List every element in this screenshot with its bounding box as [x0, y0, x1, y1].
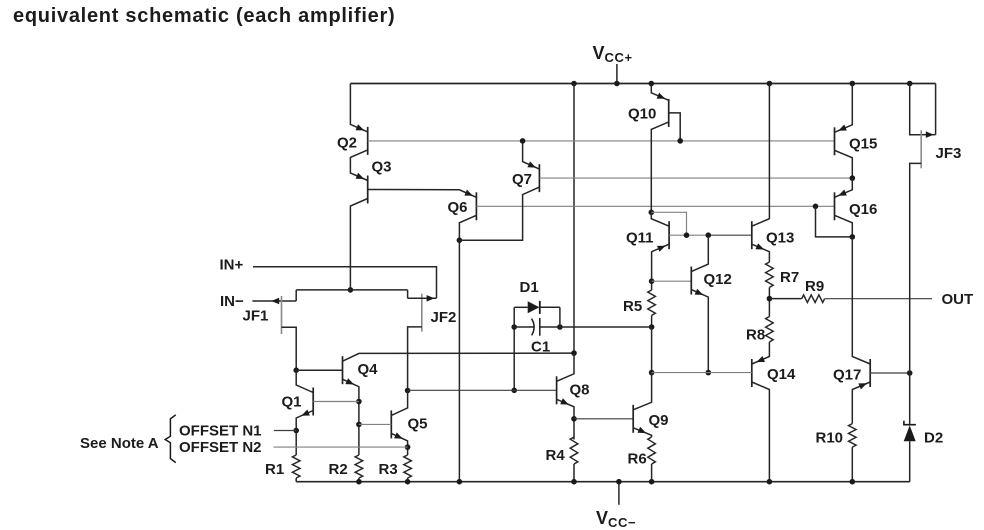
- node VCC+ rail junction (Q10 emitter): [649, 81, 655, 87]
- transistor Q7 emitter arrow: [527, 161, 536, 167]
- transistor Q13 emitter arrow: [756, 243, 765, 249]
- transistor Q2 emitter arrow: [356, 124, 365, 130]
- resistor R8: [766, 317, 774, 342]
- svg-text:Q14: Q14: [767, 366, 796, 383]
- transistor Q3 label: [372, 159, 392, 176]
- svg-text:IN+: IN+: [220, 257, 244, 274]
- node Q4 emitter / Q1 base junction: [356, 399, 362, 405]
- node VCC+ rail junction (JF3 drain): [907, 81, 913, 87]
- wire R5 bottom to C1 line: [651, 315, 653, 327]
- node Q10/Q11 collector junction: [649, 210, 655, 216]
- wire Q16 emitter: [835, 178, 853, 197]
- resistor R1 label: [265, 461, 284, 478]
- wire IN- line to JF1 gate: [252, 300, 296, 302]
- svg-text:Q3: Q3: [372, 159, 392, 176]
- wire OUT line: [825, 298, 932, 300]
- wire Q12 collector up: [691, 235, 708, 271]
- node R4 at VCC- rail: [571, 479, 577, 485]
- wire Q16 collector to Q17 collector: [851, 237, 853, 356]
- node IN+ label: [220, 257, 244, 274]
- wire Q11 collector: [651, 212, 669, 226]
- wire R8 to Q14 emitter: [752, 342, 770, 364]
- wire VCC+ rail to Q8 collector vertical: [573, 84, 575, 354]
- wire D2 anode to VCC- rail: [909, 441, 911, 481]
- transistor Q6 bar: [475, 192, 477, 220]
- transistor Q1 emitter arrow: [301, 410, 310, 416]
- node Q15 collector / Q16 emitter junction: [850, 175, 856, 181]
- wire JF1 source lead up to source rail: [295, 290, 297, 301]
- wire Q2 emitter from rail: [350, 84, 367, 132]
- wire Q9 base line: [574, 418, 633, 420]
- wire VCC- bottom rail: [296, 481, 910, 483]
- wire Q7 base line: [539, 177, 852, 179]
- svg-text:OFFSET N1: OFFSET N1: [179, 423, 262, 440]
- transistor JF1 channel bar: [281, 296, 283, 334]
- node Q10 base junction on Q2 base line: [677, 138, 683, 144]
- svg-text:Q7: Q7: [512, 171, 532, 188]
- node R3 at VCC- rail: [405, 479, 411, 485]
- wire OFFSET N2 lead: [274, 446, 408, 448]
- transistor Q12 bar: [690, 267, 692, 295]
- transistor Q4 label: [358, 361, 379, 378]
- node R6 at VCC- rail: [649, 479, 655, 485]
- transistor Q14 bar: [751, 359, 753, 387]
- wire Q9 emitter down to R6: [633, 428, 651, 437]
- wire C1 line to R5 bottom: [540, 326, 652, 328]
- transistor JF2 channel bar: [421, 294, 423, 332]
- wire Q8 emitter down: [557, 399, 574, 439]
- wire R7 to R8 junction: [768, 287, 770, 316]
- node VCC- label: [596, 508, 636, 530]
- wire Q1 emitter down to R1: [296, 411, 313, 456]
- svg-text:R8: R8: [746, 327, 765, 344]
- wire R4 to VCC- rail: [573, 464, 575, 482]
- svg-text:R9: R9: [805, 278, 824, 295]
- transistor JF3 gate arrow: [926, 131, 934, 138]
- resistor R4 label: [546, 447, 566, 464]
- transistor Q5 emitter arrow: [394, 432, 403, 438]
- wire VCC+ rail right corner to JF3 gate: [935, 84, 937, 135]
- diode D2 label: [924, 430, 943, 447]
- wire Q4 base line: [296, 369, 342, 371]
- node Q16 base junction: [813, 204, 819, 210]
- resistor R1: [292, 455, 300, 478]
- transistor Q13 label: [766, 230, 794, 247]
- node See Note A label: [80, 435, 159, 452]
- wire R9 left lead: [769, 298, 801, 300]
- wire Q13 base segment: [708, 234, 752, 236]
- transistor Q8 label: [570, 382, 590, 399]
- node Q9 collector / Q14 base junction: [649, 370, 655, 376]
- transistor Q16 bar: [834, 192, 836, 220]
- transistor Q12 label: [704, 271, 732, 288]
- svg-text:IN−: IN−: [220, 293, 244, 310]
- transistor Q9 label: [649, 412, 669, 429]
- wire D1 cathode lead: [540, 306, 560, 308]
- svg-text:Q1: Q1: [282, 394, 302, 411]
- node VCC+ rail junction (mid vertical): [571, 81, 577, 87]
- svg-text:Q8: Q8: [570, 382, 590, 399]
- transistor JF2 gate arrow: [427, 295, 435, 302]
- transistor Q9 emitter arrow: [638, 427, 647, 433]
- transistor Q10 emitter arrow: [657, 93, 666, 99]
- svg-text:R4: R4: [546, 447, 566, 464]
- wire Q17 base line: [870, 372, 910, 374]
- wire Q1 collector up: [296, 370, 313, 392]
- node JF2 drain / Q5 collector / Q8 base junction: [405, 388, 411, 394]
- wire Q16 collector down: [835, 215, 853, 237]
- node JF1 drain / Q1 collector / Q4 base junction: [293, 367, 299, 373]
- wire R6 to VCC- rail: [651, 464, 653, 482]
- svg-text:OUT: OUT: [942, 291, 974, 308]
- wire R5 to Q14 base junction: [651, 327, 653, 373]
- diode D2 cathode bar: [904, 421, 916, 425]
- svg-text:Q6: Q6: [448, 199, 468, 216]
- transistor Q11 bar: [668, 221, 670, 249]
- wire Q3 collector down to JFET source rail: [350, 199, 367, 290]
- svg-text:R5: R5: [623, 298, 642, 315]
- node Q7 emitter junction on Q2 base line: [520, 138, 526, 144]
- svg-text:Q4: Q4: [358, 361, 379, 378]
- transistor JF2 label: [431, 309, 457, 326]
- transistor JF3 label: [936, 145, 962, 162]
- node C1 line left junction: [511, 324, 517, 330]
- resistor R6: [648, 437, 656, 464]
- resistor R9 label: [805, 278, 824, 295]
- transistor Q16 label: [849, 201, 877, 218]
- transistor Q15 label: [849, 136, 877, 153]
- node Q16 collector junction: [850, 234, 856, 240]
- transistor Q4 emitter arrow: [345, 378, 354, 384]
- node IN- label: [220, 293, 244, 310]
- svg-text:Q5: Q5: [408, 416, 428, 433]
- capacitor C1 curved plate: [532, 319, 535, 336]
- svg-text:Q11: Q11: [626, 230, 654, 247]
- transistor Q14 label: [767, 366, 796, 383]
- transistor Q4 bar: [342, 356, 344, 384]
- svg-text:Q15: Q15: [849, 136, 877, 153]
- resistor R9: [802, 295, 825, 303]
- wire Q15 emitter from rail: [835, 84, 853, 133]
- wire Q7 emitter up to Q2 base line: [523, 141, 540, 169]
- node Q12 emitter junction on Q14 base line: [706, 370, 712, 376]
- transistor Q6 label: [448, 199, 468, 216]
- transistor Q1 bar: [312, 388, 314, 416]
- wire Q14 base line: [652, 372, 752, 374]
- wire Q11-Q13 base line: [669, 234, 708, 236]
- wire Q5 emitter down to R3: [391, 433, 407, 455]
- transistor Q14 emitter arrow: [756, 356, 765, 362]
- node VCC+ stub junction: [614, 81, 620, 87]
- svg-text:JF2: JF2: [431, 309, 457, 326]
- wire Q17 collector diag: [852, 356, 870, 365]
- wire D1 branch right vertical: [559, 307, 561, 327]
- wire VCC+ top rail: [350, 83, 935, 85]
- diode D1 label: [520, 279, 539, 296]
- resistor R5 label: [623, 298, 642, 315]
- wire Q4 collector line to VCC vertical: [343, 353, 575, 361]
- wire Q11 emitter down to R5: [652, 244, 670, 290]
- wire D1 branch left vertical: [513, 307, 515, 390]
- wire Q12 emitter down to Q14 base line: [691, 290, 708, 373]
- wire R3 to VCC- rail: [407, 478, 409, 482]
- node VCC+ label: [593, 43, 633, 65]
- svg-text:Q12: Q12: [704, 271, 732, 288]
- node OFFSET N2 label: [179, 439, 262, 456]
- wire JF3 drain lead up to rail: [910, 84, 922, 135]
- wire Q12 base line: [652, 280, 692, 282]
- wire Q8 collector up: [557, 353, 574, 381]
- wire VCC- stub: [618, 482, 620, 505]
- wire JF2 drain lead down: [408, 327, 422, 391]
- svg-text:R10: R10: [816, 430, 844, 447]
- node OFFSET N1 label: [179, 423, 262, 440]
- node Q6 collector at VCC- rail: [457, 479, 463, 485]
- transistor Q12 emitter arrow: [695, 289, 704, 295]
- node Q4/Q8 collector junction: [571, 350, 577, 356]
- wire Q9 collector vertical: [633, 373, 651, 410]
- transistor Q17 emitter arrow: [858, 383, 867, 389]
- wire Q10 base to Q2 base line: [669, 113, 681, 141]
- node Q17 base / JF3 source junction: [907, 370, 913, 376]
- resistor R6 label: [628, 451, 647, 468]
- svg-text:Q17: Q17: [833, 367, 861, 384]
- resistor R7: [766, 262, 774, 287]
- wire OFFSET N1 lead: [274, 430, 296, 432]
- node Q11 emitter / Q12 base junction: [649, 278, 655, 284]
- wire Q7 collector loop: [459, 187, 539, 240]
- wire D1 anode lead: [514, 306, 528, 308]
- svg-text:Q13: Q13: [766, 230, 794, 247]
- svg-text:C1: C1: [531, 339, 550, 356]
- wire Q15 collector down: [835, 150, 853, 178]
- wire Q5 base line: [359, 423, 391, 425]
- wire Q11 collector-base loop: [651, 212, 686, 235]
- transistor Q13 bar: [751, 221, 753, 249]
- wire JF3 source to D2: [909, 373, 911, 425]
- node Q12 collector junction on base line: [706, 232, 712, 238]
- node R10 at VCC- rail: [850, 479, 856, 485]
- svg-text:OFFSET N2: OFFSET N2: [179, 439, 262, 456]
- node Q6 collector / Q7 collector junction: [457, 237, 463, 243]
- node VCC- stub junction: [616, 479, 622, 485]
- transistor JF1 label: [243, 308, 269, 325]
- wire JF1 drain lead down: [282, 327, 297, 370]
- node R5 / C1 line junction: [649, 324, 655, 330]
- transistor Q7 bar: [538, 164, 540, 192]
- transistor JF1 gate arrow: [271, 298, 279, 304]
- node Q5 base junction: [356, 422, 362, 428]
- wire Q5 collector up: [391, 391, 407, 416]
- node C1 line right junction: [557, 324, 563, 330]
- capacitor C1 straight plate: [539, 318, 541, 336]
- transistor Q15 bar: [834, 127, 836, 155]
- transistor Q8 emitter arrow: [560, 398, 569, 404]
- svg-text:JF1: JF1: [243, 308, 269, 325]
- node Q8 emitter / Q9 base junction: [571, 416, 577, 422]
- wire IN+ line to JF2 gate: [253, 267, 437, 299]
- svg-text:Q10: Q10: [628, 106, 656, 123]
- svg-text:R3: R3: [379, 461, 398, 478]
- transistor Q15 emitter arrow: [838, 125, 847, 131]
- transistor Q3 bar: [367, 176, 369, 204]
- resistor R8 label: [746, 327, 765, 344]
- resistor R3: [404, 455, 412, 478]
- transistor Q17 label: [833, 367, 861, 384]
- transistor Q11 label: [626, 230, 654, 247]
- svg-text:R1: R1: [265, 461, 284, 478]
- transistor Q10 bar: [668, 99, 670, 127]
- wire Q6 base line: [476, 205, 834, 207]
- svg-text:Q16: Q16: [849, 201, 877, 218]
- resistor R10: [849, 424, 857, 448]
- wire Q4 emitter down: [343, 379, 359, 455]
- diode D2 triangle: [904, 425, 916, 441]
- resistor R4: [570, 437, 578, 464]
- node Q14 collector at VCC- rail: [767, 479, 773, 485]
- wire Q3 base to Q6 emitter: [368, 190, 477, 198]
- wire VCC+ stub: [616, 64, 618, 84]
- svg-text:JF3: JF3: [936, 145, 962, 162]
- svg-text:R2: R2: [329, 461, 348, 478]
- wire Q2 collector to Q3 emitter: [350, 150, 367, 181]
- svg-text:D1: D1: [520, 279, 539, 296]
- transistor Q2 label: [337, 135, 357, 152]
- node R2 at VCC- rail: [356, 479, 362, 485]
- node VCC+ rail junction (Q13 collector): [767, 81, 773, 87]
- wire JF3 source lead down: [910, 163, 922, 373]
- transistor Q2 bar: [367, 127, 369, 155]
- transistor Q3 emitter arrow: [356, 173, 365, 179]
- wire Q2 base line: [368, 140, 835, 142]
- wire Q1 base line: [313, 401, 359, 403]
- wire R1 to VCC- rail: [295, 478, 297, 482]
- wire Q14 collector to VCC- rail: [752, 382, 770, 482]
- wire Q13 emitter to R7: [752, 244, 770, 262]
- wire Q6 collector down to VCC- rail: [459, 215, 476, 481]
- node JFET source rail junction: [348, 287, 354, 293]
- transistor Q5 bar: [390, 410, 392, 438]
- wire C1 left lead: [514, 326, 533, 328]
- transistor Q8 bar: [556, 376, 558, 404]
- svg-text:R7: R7: [780, 269, 799, 286]
- transistor Q6 emitter arrow: [464, 190, 473, 196]
- node Q11 base-collector junction: [684, 232, 690, 238]
- diode D1 triangle: [528, 301, 540, 313]
- node OUT label: [942, 291, 974, 308]
- node OFFSET N1 junction: [293, 428, 299, 434]
- node R7/R8/R9 junction: [767, 296, 773, 302]
- resistor R3 label: [379, 461, 398, 478]
- wire JF2 gate line: [408, 297, 437, 299]
- wire R10 to VCC- rail: [851, 447, 853, 482]
- transistor Q11 emitter arrow: [657, 246, 666, 252]
- node OFFSET N2 junction: [405, 444, 411, 450]
- wire Q13 collector up to rail: [752, 84, 770, 227]
- wire JF3 gate line: [921, 134, 935, 136]
- svg-text:Q2: Q2: [337, 135, 357, 152]
- transistor Q16 emitter arrow: [838, 190, 847, 196]
- wire Q8 base line: [408, 389, 557, 391]
- capacitor C1 label: [531, 339, 550, 356]
- transistor Q1 label: [282, 394, 302, 411]
- transistor JF3 channel bar: [920, 130, 922, 168]
- svg-text:See Note A: See Note A: [80, 435, 159, 452]
- transistor Q10 label: [628, 106, 656, 123]
- transistor Q17 bar: [869, 359, 871, 387]
- svg-text:Q9: Q9: [649, 412, 669, 429]
- resistor R5: [648, 290, 656, 315]
- wire JFET common source rail: [296, 289, 407, 291]
- wire Q10 collector down: [651, 122, 668, 212]
- node VCC+ rail junction (Q15 emitter): [850, 81, 856, 87]
- resistor R10 label: [816, 430, 844, 447]
- node Q8 base line left junction: [511, 388, 517, 394]
- wire Q16 base-collector loop: [816, 206, 853, 237]
- resistor R2: [355, 455, 363, 478]
- resistor R7 label: [780, 269, 799, 286]
- transistor Q7 label: [512, 171, 532, 188]
- resistor R2 label: [329, 461, 348, 478]
- transistor Q5 label: [408, 416, 428, 433]
- wire R2 to VCC- rail: [358, 478, 360, 482]
- transistor Q9 bar: [632, 405, 634, 433]
- brace for offset pins: [165, 415, 176, 463]
- svg-text:D2: D2: [924, 430, 943, 447]
- wire JF2 source lead up to source rail: [407, 290, 409, 298]
- wire Q10 emitter from rail: [651, 84, 668, 101]
- wire Q17 emitter to R10: [852, 382, 870, 424]
- svg-text:R6: R6: [628, 451, 647, 468]
- diode D1 cathode bar: [539, 301, 541, 314]
